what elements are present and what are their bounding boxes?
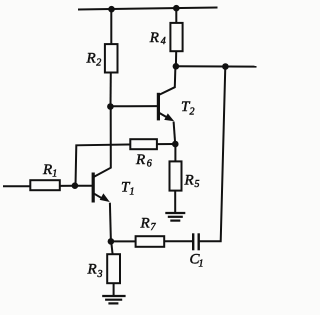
wire node base T2 horizontal <box>110 105 157 107</box>
resistor R1 <box>30 180 60 190</box>
svg-text:1: 1 <box>52 169 57 180</box>
wire bottom node to R7 <box>111 240 136 242</box>
wire R2 bottom lead <box>110 73 112 107</box>
wire emitter node to R5 <box>174 144 176 162</box>
label R4 <box>149 30 166 47</box>
wire collector node to right <box>176 65 257 67</box>
node dot below R2 <box>107 103 114 110</box>
node junction dots <box>72 5 229 245</box>
label T1 <box>121 180 135 198</box>
label T2 <box>181 99 195 118</box>
label R5 <box>184 173 200 191</box>
svg-text:R: R <box>140 216 150 232</box>
svg-text:R: R <box>149 30 159 46</box>
label C1 <box>190 252 204 270</box>
svg-text:R: R <box>86 51 96 67</box>
svg-text:2: 2 <box>190 107 195 118</box>
label R7 <box>140 216 157 234</box>
node dot T2 emitter / R6 / R5 <box>172 141 179 148</box>
svg-text:R: R <box>87 262 97 278</box>
svg-text:1: 1 <box>199 259 204 270</box>
ground for R5 <box>165 213 185 221</box>
wire T1 emitter lead down <box>110 203 111 242</box>
resistor R6 <box>130 139 157 149</box>
node dot R1 / T1 base <box>72 182 79 189</box>
wire R1 to base node <box>60 185 75 187</box>
node dot below R4 <box>173 63 180 70</box>
svg-text:R: R <box>42 162 52 178</box>
wire R2 top lead <box>110 9 112 44</box>
resistor R2 <box>105 44 118 72</box>
transistor T2 emitter with arrow <box>159 113 174 122</box>
svg-text:R: R <box>135 152 145 168</box>
svg-text:1: 1 <box>130 187 135 198</box>
wire base node up and across to R6 <box>76 145 131 186</box>
svg-text:2: 2 <box>96 58 101 69</box>
resistor R4 <box>170 23 182 51</box>
wire R3 to ground <box>113 283 115 296</box>
wire top supply rail <box>78 8 218 10</box>
svg-text:5: 5 <box>195 179 200 190</box>
label R6 <box>135 152 152 170</box>
node dot right branch top <box>222 63 229 70</box>
wire R4 top lead <box>175 8 177 23</box>
ground for R3 <box>102 296 125 303</box>
resistor R7 <box>136 236 165 247</box>
wire R4 bottom lead <box>175 51 177 66</box>
resistor R5 <box>170 161 182 190</box>
svg-text:3: 3 <box>97 269 103 280</box>
wire R5 to ground <box>174 191 176 213</box>
node dot top rail left (R2) <box>108 6 115 13</box>
label R2 <box>86 51 102 69</box>
wire T1 collector <box>94 107 111 177</box>
svg-text:6: 6 <box>147 159 152 170</box>
transistor T1 base bar <box>92 173 95 203</box>
capacitor C1 <box>193 233 199 250</box>
transistor T2 base bar <box>157 93 160 121</box>
resistor R3 <box>107 254 120 283</box>
wire T2 emitter lead down <box>174 122 176 144</box>
wire T2 collector <box>160 66 176 94</box>
node dot top rail right (R4) <box>173 5 180 12</box>
svg-text:4: 4 <box>161 36 166 47</box>
wire base node to T1 base <box>75 185 93 187</box>
node dot bottom (T1 emitter / R7 / R3) <box>108 238 115 245</box>
transistor T1 emitter with arrow <box>94 193 110 202</box>
label R1 <box>42 162 57 180</box>
wire bottom node to R3 <box>111 241 112 254</box>
svg-text:R: R <box>184 173 194 189</box>
wire R7 to C1 <box>164 240 192 242</box>
label R3 <box>87 262 103 281</box>
wire input terminal <box>3 185 30 187</box>
wire R6 to emitter node <box>157 143 175 145</box>
wire C1 to right branch corner <box>200 67 226 242</box>
